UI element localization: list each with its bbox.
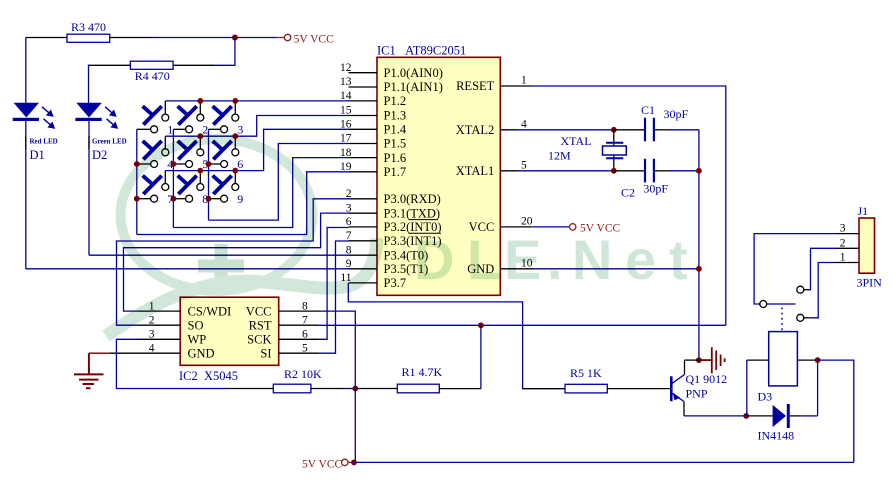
wire: relay coil right lead <box>797 359 817 361</box>
svg-text:30pF: 30pF <box>643 182 668 196</box>
svg-text:XTAL1: XTAL1 <box>456 164 495 178</box>
svg-text:3: 3 <box>346 202 352 214</box>
power ground symbol (rotated) <box>699 347 725 373</box>
svg-text:GND: GND <box>188 346 215 360</box>
ground (earth) symbol <box>74 353 104 388</box>
junction RST/R1 riser <box>478 322 484 328</box>
svg-text:Green LED: Green LED <box>92 138 127 146</box>
LED D2 cathode bar <box>75 118 101 121</box>
LED D1 triangle <box>14 103 39 118</box>
svg-text:3: 3 <box>840 223 846 235</box>
svg-text:C1: C1 <box>641 103 655 117</box>
wire: R1 right lead <box>439 388 481 390</box>
wire: caps right vertical to Q1 <box>698 130 700 360</box>
svg-text:IN4148: IN4148 <box>758 428 795 442</box>
svg-text:P1.2: P1.2 <box>384 94 407 108</box>
svg-text:16: 16 <box>340 119 352 131</box>
IC2 left pin stubs <box>110 311 180 353</box>
svg-text:D1: D1 <box>30 148 45 162</box>
relay pole contact <box>760 301 767 308</box>
svg-text:5V VCC: 5V VCC <box>302 458 342 470</box>
IC1 right pin numbers <box>521 75 533 270</box>
svg-text:19: 19 <box>340 161 352 173</box>
svg-text:PNP: PNP <box>686 386 708 400</box>
svg-text:IC1 AT89C2051: IC1 AT89C2051 <box>377 44 466 58</box>
svg-text:IC2 X5045: IC2 X5045 <box>179 369 238 383</box>
pushbutton switch 7 <box>137 171 174 206</box>
svg-text:4: 4 <box>521 118 527 130</box>
J1 pin stubs <box>838 234 859 263</box>
keypad row wire 1 (to P1.2) <box>165 100 348 102</box>
svg-text:Q1 9012: Q1 9012 <box>686 372 728 386</box>
svg-text:R2 10K: R2 10K <box>284 367 322 381</box>
svg-text:5: 5 <box>521 159 527 171</box>
wire: R5 to Q1 base <box>607 388 670 390</box>
svg-text:1: 1 <box>840 252 846 264</box>
svg-text:SO: SO <box>188 318 204 332</box>
svg-text:P1.6: P1.6 <box>384 151 407 165</box>
svg-text:3: 3 <box>149 329 155 341</box>
svg-text:17: 17 <box>340 133 352 145</box>
wire: D1 anode to R3 left <box>26 37 67 39</box>
LED D2 arrows <box>105 107 117 128</box>
wire: D1 anode riser <box>25 38 27 104</box>
IC1 right pin stubs <box>500 86 534 269</box>
wire: keypad col1 band to P1.7 <box>137 172 349 235</box>
wire: keypad col3 band to P1.5 <box>209 144 349 221</box>
svg-text:D2: D2 <box>92 148 107 162</box>
svg-text:2: 2 <box>840 237 846 249</box>
wire: junction to R1 <box>355 388 397 390</box>
svg-text:4: 4 <box>149 342 155 354</box>
svg-text:1: 1 <box>167 122 173 136</box>
wire: D2 anode riser <box>88 65 90 103</box>
microcontroller IC1 AT89C2051 body <box>377 57 500 295</box>
wire: IC2 VCC pin down to 5V junction <box>321 311 355 388</box>
wire: relay to bottom rail <box>818 360 854 462</box>
svg-text:P3.7: P3.7 <box>384 276 407 290</box>
wire: C1 left lead <box>614 129 644 131</box>
wire: lower throw to J1 pin1 <box>804 317 809 319</box>
svg-text:P1.3: P1.3 <box>384 109 407 123</box>
wire: C2 right lead <box>655 170 670 172</box>
wire: IC2 GND pin to earth <box>89 352 110 354</box>
junction C2/vertical <box>696 168 702 174</box>
J1 pin numbers <box>840 223 846 264</box>
junction XTAL2/crystal <box>611 127 617 133</box>
wire: riser to R1 right <box>480 325 482 388</box>
pushbutton switch 4 <box>137 136 174 171</box>
junction GND/vertical <box>696 266 702 272</box>
svg-text:18: 18 <box>340 147 352 159</box>
svg-text:12: 12 <box>340 62 352 74</box>
svg-text:R4 470: R4 470 <box>135 69 170 83</box>
wire: D2 cathode down <box>88 121 90 255</box>
svg-text:15: 15 <box>340 105 352 117</box>
wire: P3.7 to R5 <box>348 283 565 389</box>
wire: R4 right lead <box>173 64 216 66</box>
svg-text:9: 9 <box>346 258 352 270</box>
pushbutton switch 5 <box>173 136 208 171</box>
junction D3 anode / relay left <box>743 413 749 419</box>
svg-text:30pF: 30pF <box>664 107 689 121</box>
svg-text:P3.0(RXD): P3.0(RXD) <box>384 192 441 206</box>
svg-text:SI: SI <box>260 346 271 360</box>
svg-text:2: 2 <box>202 122 208 136</box>
svg-text:6: 6 <box>237 157 243 171</box>
LED D1 emission arrows <box>42 107 54 128</box>
junction XTAL1/crystal <box>611 168 617 174</box>
wire: C1 right lead <box>655 129 670 131</box>
pushbutton switch 3 <box>209 101 244 136</box>
keypad row wire 2 (to P1.3) <box>165 116 348 137</box>
wire: XTAL1 to crystal <box>518 170 614 172</box>
junction bottom rail <box>351 460 357 466</box>
svg-text:J1: J1 <box>858 204 869 218</box>
svg-text:3PIN: 3PIN <box>857 276 883 290</box>
keypad column wire 3 <box>208 129 210 220</box>
wire: IC2 SCK to P3.2 <box>320 228 349 340</box>
resistor R1 <box>397 384 439 393</box>
wire: IC2 SI to P3.3 <box>320 241 349 353</box>
svg-text:VCC: VCC <box>246 304 272 318</box>
power port 5V VCC top <box>277 37 284 39</box>
crystal XTAL 12M <box>613 130 615 171</box>
wire: R2 right lead to junction <box>311 388 343 390</box>
svg-text:WP: WP <box>188 333 207 347</box>
wire: R4 left lead to D2 riser <box>88 64 131 66</box>
wire: D3 cathode lead <box>790 415 802 417</box>
wire: R2 left lead <box>230 388 273 390</box>
wire: R3 right to junction <box>110 37 151 39</box>
svg-text:8: 8 <box>346 244 352 256</box>
pin name underline TXD <box>409 219 439 221</box>
svg-text:P1.5: P1.5 <box>384 137 407 151</box>
junction dots keypad columns <box>134 161 212 202</box>
svg-text:5V VCC: 5V VCC <box>294 33 334 45</box>
wire: Q1 emitter down to D3 line <box>683 402 685 416</box>
LED D1 cathode bar <box>13 118 39 121</box>
relay contact link (dotted) <box>781 308 783 332</box>
wire: XTAL2 to crystal <box>518 129 614 131</box>
wire: D1 cathode down <box>25 121 27 269</box>
wire: D2 band to P3.4 <box>89 254 349 256</box>
svg-text:R1 4.7K: R1 4.7K <box>402 365 443 379</box>
svg-text:Red LED: Red LED <box>30 138 58 146</box>
svg-text:6: 6 <box>346 216 352 228</box>
junction R2/R1/5V <box>352 386 358 392</box>
svg-text:SCK: SCK <box>247 333 271 347</box>
resistor R4 <box>130 61 173 69</box>
connector J1 body <box>859 218 875 273</box>
svg-text:13: 13 <box>340 76 352 88</box>
wire: 5V junction down to bottom rail <box>354 389 356 463</box>
resistor R5 <box>565 384 607 393</box>
wire: bottom 5V rail <box>354 461 854 463</box>
wire: IC2 CS to P3.1 <box>124 213 349 311</box>
IC1 right pin names <box>456 79 495 276</box>
pushbutton switch 6 <box>209 136 244 171</box>
svg-text:XTAL2: XTAL2 <box>456 123 495 137</box>
relay coil K1 <box>769 332 798 386</box>
keypad column wire 1 <box>136 129 138 234</box>
wire: D1 band to P3.5 <box>26 268 349 270</box>
junction dots keypad rows <box>197 98 238 174</box>
svg-text:6: 6 <box>302 329 308 341</box>
IC2 right pin names <box>246 304 272 360</box>
IC1 left pin names <box>384 66 443 290</box>
svg-text:RST: RST <box>249 318 272 332</box>
svg-text:2: 2 <box>149 314 155 326</box>
keypad row wire 3 (to P1.4) <box>165 129 348 170</box>
junction dot top rail <box>232 35 238 41</box>
wire: keypad col2 band to P1.6 <box>173 158 348 228</box>
svg-text:P1.0(AIN0): P1.0(AIN0) <box>384 66 443 80</box>
svg-text:RESET: RESET <box>456 79 495 93</box>
wire: pole to J1 pin3 <box>754 234 838 304</box>
svg-text:20: 20 <box>521 215 533 227</box>
power port 5V VCC (pin20) <box>531 226 569 228</box>
relay throw contact lower <box>797 314 804 321</box>
svg-text:2: 2 <box>346 188 352 200</box>
relay throw contact upper <box>797 286 804 293</box>
capacitor C1 <box>644 118 646 142</box>
wire: RESET net (pin1 to RST line) <box>534 86 726 325</box>
wire: junction down to R4 level <box>216 38 235 66</box>
wire: relay coil left lead <box>747 359 769 361</box>
wire: IC2 SO to P3.0 <box>117 199 349 325</box>
wire: WP down to R2 line <box>116 339 230 388</box>
svg-text:C2: C2 <box>621 185 635 199</box>
svg-text:12M: 12M <box>548 149 571 163</box>
IC2 right pin stubs <box>279 311 321 353</box>
svg-text:R5 1K: R5 1K <box>570 366 602 380</box>
svg-text:1: 1 <box>521 75 527 87</box>
svg-text:7: 7 <box>346 230 352 242</box>
wire: GND pin to vertical <box>534 268 699 270</box>
svg-text:P1.7: P1.7 <box>384 165 407 179</box>
svg-text:3: 3 <box>237 122 243 136</box>
svg-text:P1.1(AIN1): P1.1(AIN1) <box>384 80 443 94</box>
junction relay right / rail <box>815 357 821 363</box>
wire: relay pole arm <box>767 303 796 305</box>
IC2 X5045 body <box>180 297 279 365</box>
wire: upper throw to J1 pin2 <box>804 289 808 291</box>
svg-text:14: 14 <box>340 90 352 102</box>
svg-text:D3: D3 <box>758 389 773 403</box>
wire: C2 left lead <box>614 170 644 172</box>
capacitor C2 <box>644 159 646 183</box>
resistor R3 <box>67 34 110 42</box>
IC2 left pin numbers <box>149 300 155 354</box>
svg-text:XTAL: XTAL <box>561 134 592 148</box>
svg-text:8: 8 <box>302 300 308 312</box>
wire: IC2 RST line to RESET vertical <box>318 324 726 326</box>
IC2 left pin names <box>188 304 232 360</box>
diode D3 <box>773 405 786 427</box>
pushbutton switch 8 <box>173 171 208 206</box>
junction Q1 collector / GND vertical <box>696 357 702 363</box>
wire: D3 anode lead <box>746 415 772 417</box>
IC1 left pin stubs <box>349 73 378 283</box>
svg-text:CS/WDI: CS/WDI <box>188 304 232 318</box>
pin name underline INT0 <box>409 232 442 234</box>
svg-text:9: 9 <box>237 192 243 206</box>
pushbutton switch 1 <box>137 101 174 136</box>
svg-text:P1.4: P1.4 <box>384 123 407 137</box>
LED D2 triangle <box>76 103 102 118</box>
resistor R2 <box>273 384 311 393</box>
wire: relay right vertical to D3 <box>817 360 819 416</box>
svg-text:P3.1(TXD): P3.1(TXD) <box>384 206 441 220</box>
pushbutton switch 9 <box>209 171 244 206</box>
IC1 left pin numbers <box>340 62 352 284</box>
keypad column wire 2 <box>172 129 174 227</box>
IC2 right pin numbers <box>302 300 308 354</box>
transistor Q1 9012 PNP <box>685 359 699 361</box>
pushbutton switch 2 <box>173 101 208 136</box>
svg-text:5: 5 <box>302 342 308 354</box>
svg-text:7: 7 <box>302 314 308 326</box>
svg-text:R3 470: R3 470 <box>71 20 106 34</box>
